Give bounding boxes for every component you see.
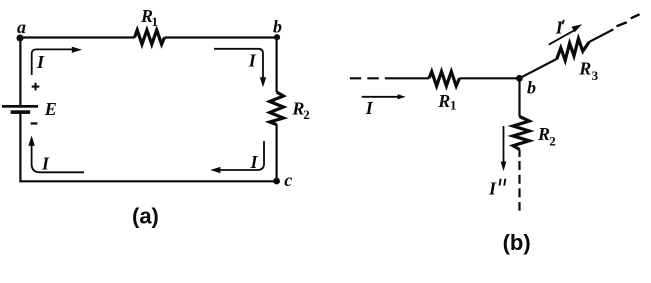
wire diagonal (b): node b to R3 bbox=[519, 59, 557, 79]
svg-text:1: 1 bbox=[450, 98, 457, 113]
battery minus sign bbox=[31, 122, 38, 124]
wire left (b): dashes to R1 bbox=[396, 77, 429, 79]
label I bottom-right (a) bbox=[250, 152, 259, 172]
svg-text:E: E bbox=[44, 99, 57, 119]
svg-text:R: R bbox=[437, 91, 450, 111]
wire left (a): battery plus up to node a bbox=[19, 38, 21, 107]
label I'' (b) bbox=[488, 178, 497, 198]
wire (b): R2 short solid below bbox=[518, 150, 520, 158]
node b (a) bbox=[274, 34, 280, 40]
svg-text:I: I bbox=[250, 152, 259, 172]
prime mark of I' bbox=[562, 20, 565, 24]
current arrow I (b) bbox=[362, 94, 406, 99]
wire left (a): bottom corner up to battery minus bbox=[19, 113, 21, 182]
wire dashed left (b) bbox=[350, 77, 396, 79]
battery E plate long (positive) bbox=[2, 105, 38, 108]
wire (b): node b down to R2 bbox=[518, 78, 520, 116]
svg-text:R: R bbox=[578, 58, 591, 78]
svg-text:a: a bbox=[17, 17, 26, 37]
label I (b) bbox=[365, 98, 374, 118]
svg-text:I: I bbox=[248, 51, 257, 71]
svg-text:I: I bbox=[41, 154, 50, 174]
svg-text:(b): (b) bbox=[503, 230, 531, 255]
resistor R1 (a) zigzag bbox=[135, 30, 165, 44]
caption (a) bbox=[132, 204, 159, 229]
wire bottom (a): node c to left corner bbox=[20, 180, 276, 182]
battery E plate short (negative) bbox=[11, 110, 31, 114]
label R2 (b) bbox=[537, 124, 556, 149]
svg-text:I: I bbox=[36, 52, 45, 72]
current arrow I' (b) bbox=[549, 24, 582, 44]
label I' (b) bbox=[555, 18, 564, 38]
wire (b): R1 to node b bbox=[460, 77, 520, 79]
current arrow I bottom-right (a) bbox=[210, 141, 264, 173]
resistor R1 (b) zigzag bbox=[429, 72, 460, 87]
svg-text:I: I bbox=[555, 18, 564, 38]
wire dashed (b): below R2 bbox=[518, 161, 520, 211]
label E bbox=[44, 99, 57, 119]
svg-text:R: R bbox=[537, 124, 550, 144]
svg-text:3: 3 bbox=[592, 68, 599, 83]
label b (a) bbox=[273, 16, 282, 36]
wire diagonal dashed (b) top-right bbox=[617, 14, 640, 26]
svg-text:(a): (a) bbox=[132, 204, 159, 229]
label I top-right (a) bbox=[248, 51, 257, 71]
current arrow I bottom-left (a) bbox=[28, 136, 84, 173]
node a bbox=[17, 35, 24, 42]
caption (b) bbox=[503, 230, 531, 255]
label R2 (a) bbox=[291, 99, 309, 123]
node b (b) bbox=[516, 75, 523, 82]
resistor R2 (a) zigzag bbox=[270, 92, 284, 125]
svg-text:I: I bbox=[488, 178, 497, 198]
resistor R2 (b) zigzag bbox=[513, 116, 529, 149]
label R1 (b) bbox=[437, 91, 456, 113]
label I top-left (a) bbox=[36, 52, 45, 72]
resistor R3 (b) zigzag (rotated) bbox=[557, 39, 589, 61]
label R3 (b) bbox=[578, 58, 598, 83]
label b (b) bbox=[527, 77, 536, 97]
label c bbox=[284, 170, 292, 190]
wire top (a): R1 to node b bbox=[165, 36, 277, 38]
label a bbox=[17, 17, 26, 37]
svg-text:1: 1 bbox=[152, 14, 159, 29]
battery plus sign bbox=[32, 83, 40, 91]
node c bbox=[273, 178, 280, 185]
svg-text:b: b bbox=[527, 77, 536, 97]
svg-text:c: c bbox=[284, 170, 292, 190]
current arrow I top-left (a) bbox=[32, 47, 82, 75]
svg-text:b: b bbox=[273, 16, 282, 36]
current arrow I top-right (a) bbox=[214, 49, 266, 87]
label I bottom-left (a) bbox=[41, 154, 50, 174]
wire right (a): R2 to node c bbox=[276, 124, 278, 181]
double prime marks of I'' bbox=[499, 179, 507, 186]
svg-text:I: I bbox=[365, 98, 374, 118]
svg-text:2: 2 bbox=[549, 134, 556, 149]
current arrow I'' (b) bbox=[501, 126, 507, 171]
wire top (a): node a to R1 bbox=[20, 36, 134, 38]
label R1 (a) bbox=[140, 6, 158, 29]
wire diagonal (b): R3 to dashes bbox=[589, 29, 614, 42]
svg-text:2: 2 bbox=[303, 107, 310, 122]
wire right (a): node b to R2 bbox=[276, 38, 278, 93]
